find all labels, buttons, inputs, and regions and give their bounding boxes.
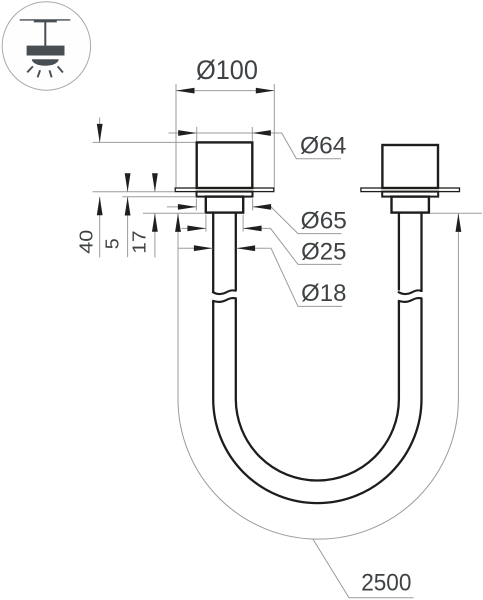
right tube lower segment [399,298,422,399]
dim O25 ext left [205,215,207,232]
icon ray 1 [27,66,33,72]
icon ray 3 [50,70,52,77]
right mount [361,145,460,399]
dim O65 right line and leader [253,207,342,234]
right canopy box [382,145,438,188]
dim O18 left line [178,247,213,249]
ext line flange bottom [93,191,175,193]
right plate [382,192,438,197]
arrow 17 bottom [152,213,158,232]
arrow 2500 left [175,213,181,232]
right tube upper segment [399,213,422,292]
ext line box top [93,141,196,143]
icon ceiling line [20,19,71,21]
arrow O65 right [253,204,272,210]
U-bend outer wall [213,399,421,503]
dim 5 line upper [127,176,129,192]
dim O25 ext right [242,215,244,232]
icon: ceiling lamp pictogram [2,2,90,90]
svg-text:Ø65: Ø65 [301,209,347,235]
dim 40 line lower [99,197,101,258]
icon dome [32,59,59,66]
dim 2500 arc [178,399,458,539]
arrow O65 left [178,204,197,210]
arrow 5 bottom [125,197,131,216]
svg-text:Ø18: Ø18 [301,281,346,307]
U-bend inner wall [236,399,399,480]
dim 17 line upper [154,176,156,192]
dim O64 line and leader [169,133,342,159]
left tube upper segment [213,213,236,292]
dim O18 right line and leader [237,248,342,306]
svg-text:Ø25: Ø25 [301,239,346,265]
dim 2500 right vertical [457,213,459,399]
arrow O100 right [256,88,275,94]
arrow O18 left [194,245,213,251]
dim O64 extension left [196,127,198,142]
left plate [197,192,253,197]
dim O65 left line [167,206,196,208]
dim O25 left line [182,227,206,229]
arrow O64 left [178,130,197,136]
svg-text:40: 40 [75,230,96,254]
right tube lower wave [398,298,422,302]
icon stem [44,22,46,46]
icon ray 2 [38,70,41,77]
arrows [97,88,462,251]
left tube upper wave [212,290,236,294]
dim O100 line [176,90,274,92]
right collar [392,197,429,213]
dim 40 line upper [99,118,101,143]
dim O100 extension right [273,84,275,188]
icon circle [2,2,90,90]
arrow O18 right [237,245,256,251]
left mount [175,142,274,399]
arrow 2500 right [456,213,462,232]
dimension thin lines [93,84,482,598]
dim O25 right line and leader [243,228,341,264]
ext line plate bottom [122,196,196,198]
arrow 5 top [125,173,131,192]
icon track bar [34,20,57,22]
left canopy box [197,142,253,188]
dim 2500 ext right [430,212,482,214]
left tube lower segment [213,298,236,399]
dim 5 line lower [127,197,129,257]
arrow O25 right [243,226,262,232]
arrow O25 left [187,226,206,232]
arrow O100 left [176,88,195,94]
svg-text:Ø64: Ø64 [300,134,346,160]
left tube lower wave [212,298,236,302]
arrow O64 right [252,130,270,136]
dim O65 ext left [195,199,197,211]
dim O100 extension left [175,84,177,188]
right tube upper wave [398,290,422,294]
svg-text:5: 5 [102,238,123,249]
dim 17 line lower [154,213,156,257]
arrow 17 top [152,173,158,192]
arrow 40 bottom [97,197,103,216]
ext line collar bottom [143,212,205,214]
svg-text:Ø100: Ø100 [196,55,258,85]
left collar [206,197,243,213]
dim O64 extension right [251,127,253,142]
dim 2500 left vertical [177,213,179,399]
arrow 40 top [97,124,103,143]
icon ray 4 [58,66,63,72]
dim O65 ext right [252,199,254,211]
left flange [175,188,274,192]
right flange [361,188,460,192]
dim 2500 leader [313,539,414,598]
icon lamp body [27,46,65,56]
svg-text:2500: 2500 [361,570,411,597]
svg-text:17: 17 [129,230,150,253]
